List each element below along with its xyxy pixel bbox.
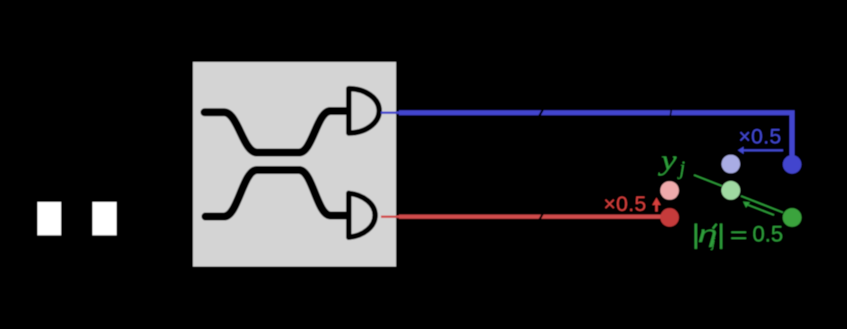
svg-text:y: y xyxy=(658,145,678,176)
detector top U1 xyxy=(349,89,379,133)
blue lead xyxy=(381,111,401,113)
green arrow line lower with head xyxy=(747,205,774,216)
waveguide top xyxy=(205,111,346,153)
green arrow line upper xyxy=(741,196,783,213)
svg-text:0.5: 0.5 xyxy=(753,222,784,247)
black tick on blue wire 2 xyxy=(670,108,673,115)
dark blue dot xyxy=(783,155,802,174)
dark green dot xyxy=(783,208,802,227)
svg-text:=: = xyxy=(730,223,748,248)
light green dot xyxy=(721,181,740,200)
waveguide bottom xyxy=(206,170,346,217)
red lead xyxy=(381,215,401,217)
red wire xyxy=(399,215,662,219)
pink dot xyxy=(660,181,679,200)
green pointer line xyxy=(694,175,722,186)
svg-text:×0.5: ×0.5 xyxy=(604,193,647,216)
svg-text:×0.5: ×0.5 xyxy=(739,126,782,149)
white square 2 xyxy=(93,202,117,235)
chip box xyxy=(193,62,396,267)
blue wire xyxy=(399,113,792,156)
black tick on red wire xyxy=(538,212,545,220)
white square 1 xyxy=(38,202,62,235)
light blue dot xyxy=(722,155,741,174)
black tick on blue wire 1 xyxy=(538,108,545,116)
detector bottom U2 xyxy=(349,193,375,237)
red up arrow xyxy=(655,202,658,212)
blue arrow xyxy=(741,149,783,151)
dark red dot xyxy=(660,208,679,227)
green equation xyxy=(696,222,783,251)
